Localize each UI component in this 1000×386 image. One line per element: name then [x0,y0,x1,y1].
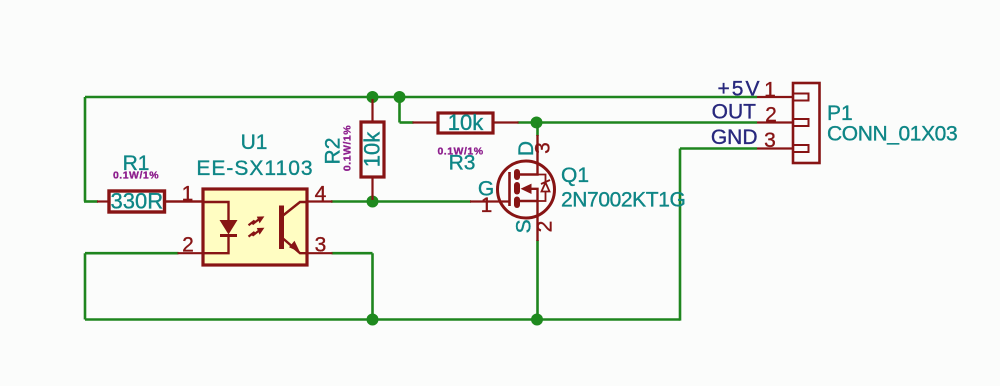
junction +5V/R3 drop [394,91,406,103]
svg-text:OUT: OUT [712,101,757,124]
wire GND vertical [679,149,682,321]
junction bottom/pin3 [367,314,379,326]
svg-text:2: 2 [765,104,777,127]
wire source to bottom rail [536,240,539,320]
junction +5V/R2 [367,91,379,103]
connector P1 body [793,83,820,163]
Q1 body diode [538,175,551,202]
U1 phototransistor [282,202,308,253]
P1 pin pad 1 [793,94,809,101]
svg-text:+5V: +5V [718,78,762,101]
svg-text:4: 4 [315,183,327,206]
svg-text:2: 2 [534,221,557,233]
U1 LED diode [203,202,238,253]
svg-text:Q1: Q1 [561,164,589,187]
svg-text:0.1W/1%: 0.1W/1% [113,170,159,182]
Q1 channel bars [514,172,520,205]
P1 pin 1 stub [757,96,793,98]
U1 pin 2 lead [178,252,204,254]
svg-text:0.1W/1%: 0.1W/1% [342,125,354,171]
junction OUT/drain [531,117,543,129]
wire U1 pin2 row [85,252,179,255]
Q1 source path [531,189,538,241]
svg-text:3: 3 [315,234,327,257]
svg-text:CONN_01X03: CONN_01X03 [827,123,957,146]
svg-text:10k: 10k [360,131,385,167]
U1 pin 1 lead [165,200,204,202]
svg-text:2: 2 [182,234,194,257]
svg-text:3: 3 [764,129,776,152]
wire drain stub [536,123,539,137]
resistor R2 (vertical) [361,99,384,200]
wire U1 pin3 to drop [332,252,373,255]
svg-text:R3: R3 [449,152,476,175]
svg-text:330R: 330R [111,189,164,214]
svg-text:S: S [513,219,536,233]
svg-text:1: 1 [182,183,194,206]
svg-text:U1: U1 [241,131,268,154]
svg-text:1: 1 [764,79,776,102]
Q1 source bottom bar link [520,200,538,202]
resistor R3 [413,113,519,133]
Q1 source arrow [521,184,532,194]
svg-text:3: 3 [532,142,555,154]
wire OUT row left to R3 [400,121,414,124]
wire OUT row R3 to P1 pin2 [518,121,758,124]
wire +5V top rail [85,96,757,99]
P1 pin pad 3 [793,145,809,152]
wire GND row [680,147,757,150]
Q1 drain path [520,135,538,175]
op U1 optocoupler body [203,189,307,265]
wire pin3 drop vertical [371,253,374,319]
wire R1 left stub [84,200,98,203]
U1 pin 4 lead [307,200,333,202]
U1 photon arrows [249,216,265,236]
svg-text:GND: GND [711,126,758,149]
resistor R1 [97,191,203,212]
U1 pin 3 lead [307,252,333,254]
P1 pin 3 stub [757,147,793,149]
svg-text:EE-SX1103: EE-SX1103 [196,157,313,180]
P1 pin 2 stub [757,121,793,123]
P1 pin pad 2 [793,119,809,126]
wire bottom rail [85,318,680,321]
Q1 gate lead [470,200,509,202]
svg-text:10k: 10k [448,110,484,135]
Q1 gate bar [508,172,511,206]
transistor Q1 body [498,161,555,218]
wire left vertical top [84,97,87,202]
wire gate net (U1 pin4 to Q1 gate) [331,200,471,203]
junction gate/R2 [367,196,379,208]
svg-text:2N7002KT1G: 2N7002KT1G [561,189,685,212]
junction bottom/source [531,314,543,326]
wire left vertical bottom [84,253,87,319]
wire OUT drop from +5V rail [398,97,401,123]
svg-text:1: 1 [481,194,493,217]
